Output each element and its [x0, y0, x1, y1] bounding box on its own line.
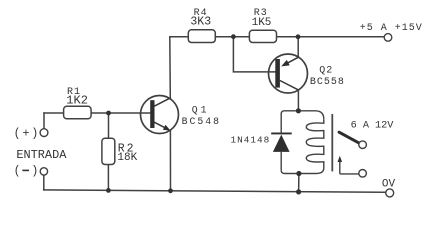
svg-text:6 A 12V: 6 A 12V — [351, 121, 395, 132]
svg-text:1K5: 1K5 — [252, 17, 272, 29]
svg-text:(+): (+) — [14, 127, 41, 140]
svg-text:( ): ( ) — [14, 165, 41, 178]
svg-text:OV: OV — [382, 179, 396, 191]
svg-text:BC558: BC558 — [310, 77, 345, 88]
svg-text:ENTRADA: ENTRADA — [16, 148, 67, 162]
svg-text:+5 A +15V: +5 A +15V — [360, 23, 423, 34]
svg-text:1N4148: 1N4148 — [231, 135, 271, 146]
svg-text:R2: R2 — [118, 142, 136, 155]
svg-text:Q2: Q2 — [319, 65, 333, 76]
svg-text:1K2: 1K2 — [66, 93, 88, 107]
svg-text:BC548: BC548 — [182, 116, 221, 127]
svg-text:3K3: 3K3 — [190, 16, 211, 29]
svg-text:Q1: Q1 — [192, 105, 210, 116]
